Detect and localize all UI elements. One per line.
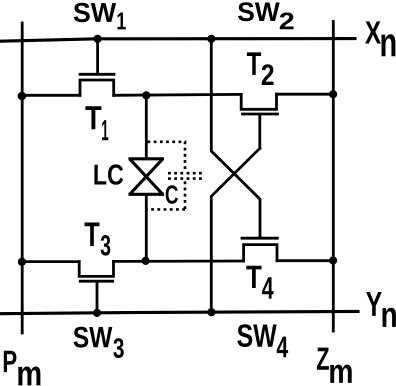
label Xn text "n": [381, 34, 395, 56]
wire upper row middle segment: [114, 93, 242, 97]
label SW4 text "SW": [237, 324, 276, 347]
transistor T4 gate: [242, 237, 277, 238]
label SW4 text "4": [277, 337, 288, 358]
node T4 drain on right bus: [329, 256, 337, 264]
label T1 text "T": [85, 106, 101, 129]
label T2 text "2": [262, 64, 274, 85]
label SW1 text "SW": [74, 3, 116, 22]
transistor T2 gate: [243, 114, 278, 148]
wire lower row middle segment: [114, 260, 244, 263]
transistor T3 gate: [80, 281, 113, 312]
wire upper row right segment: [277, 93, 334, 96]
wire Zm column (right vertical bus): [332, 22, 335, 332]
label T2 text "T": [247, 52, 261, 75]
wire upper row left segment: [22, 94, 80, 97]
transistor T3 channel: [79, 261, 113, 276]
label T3 text "T": [85, 223, 100, 247]
wire cross branch from top bus to T4 gate: [211, 39, 260, 237]
label C text "C": [166, 185, 178, 204]
transistor T4 channel: [244, 245, 277, 261]
transistor T2 channel: [241, 94, 276, 109]
node T1 gate / SW1 on top bus: [94, 35, 102, 43]
label Xn text "X": [365, 21, 381, 43]
wire Xn row (top horizontal bus): [0, 39, 355, 42]
transistor T1 gate: [80, 39, 114, 74]
node T1 source on left bus: [18, 92, 27, 101]
node LC tap on upper row: [142, 91, 150, 99]
label SW1 text "1": [118, 13, 126, 30]
label Yn text "n": [382, 308, 396, 327]
node cross branch on top bus: [207, 35, 215, 43]
label Pm text "m": [18, 367, 40, 386]
label Zm text "m": [330, 365, 352, 383]
wire dashed upper lead of C: [148, 142, 186, 170]
label LC text "LC": [94, 164, 123, 184]
label SW2 text "SW": [238, 2, 280, 21]
wire Yn row (bottom horizontal bus): [0, 311, 358, 313]
capacitor LC (liquid crystal bowtie): [130, 159, 162, 195]
transistor T1 channel: [80, 80, 114, 95]
node T3 source on left bus: [18, 258, 26, 266]
label Zm text "Z": [317, 348, 329, 370]
label Yn text "Y": [366, 292, 382, 316]
wire dashed lower lead of C: [148, 181, 186, 209]
node cross branch on bottom bus: [207, 308, 215, 316]
wire LC branch lower: [145, 195, 148, 262]
node T2 drain on right bus: [329, 90, 337, 98]
capacitor C plates: [168, 173, 202, 178]
capacitor C (dashed, in parallel with LC): [148, 142, 203, 210]
wire Pm column (left vertical bus): [21, 23, 24, 333]
wire cross branch from T2 gate to bottom bus: [211, 148, 259, 312]
wire LC branch upper: [145, 95, 148, 158]
label SW3 text "SW": [74, 327, 113, 348]
label T3 text "3": [101, 235, 111, 256]
wire lower row left segment: [22, 260, 79, 263]
label T4 text "4": [262, 277, 273, 298]
label SW2 text "2": [280, 13, 294, 30]
node LC tap on lower row: [142, 257, 150, 265]
node T3 gate / SW3 on bottom bus: [93, 309, 101, 317]
label Pm text "P": [4, 351, 17, 372]
wire lower row right segment: [277, 259, 333, 262]
label T4 text "T": [246, 266, 261, 288]
label T1 text "1": [102, 120, 108, 140]
label SW3 text "3": [113, 338, 123, 358]
